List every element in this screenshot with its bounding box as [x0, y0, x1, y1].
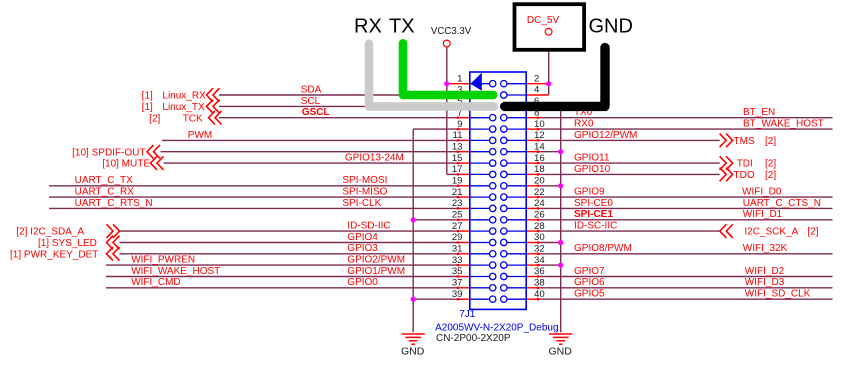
- svg-text:GND: GND: [401, 346, 425, 358]
- svg-text:Linux_TX: Linux_TX: [162, 102, 205, 113]
- svg-text:GPIO6: GPIO6: [574, 277, 605, 288]
- svg-text:WIFI_D2: WIFI_D2: [745, 266, 785, 277]
- svg-text:UART_C_CTS_N: UART_C_CTS_N: [743, 198, 821, 209]
- svg-text:SPI-MISO: SPI-MISO: [342, 187, 387, 198]
- svg-text:SPI-CE0: SPI-CE0: [574, 198, 613, 209]
- svg-text:27: 27: [452, 221, 463, 232]
- svg-text:26: 26: [534, 210, 545, 221]
- svg-text:GPIO11: GPIO11: [574, 153, 610, 164]
- svg-text:SCL: SCL: [301, 96, 321, 107]
- svg-text:GPIO13-24M: GPIO13-24M: [345, 153, 404, 164]
- svg-text:[2]: [2]: [765, 159, 776, 170]
- svg-text:GPIO7: GPIO7: [574, 266, 605, 277]
- svg-text:34: 34: [534, 255, 545, 266]
- svg-text:9: 9: [457, 119, 462, 130]
- svg-text:ID-SD-IIC: ID-SD-IIC: [347, 221, 390, 232]
- svg-text:GND: GND: [549, 346, 573, 358]
- svg-text:GPIO10: GPIO10: [574, 164, 611, 175]
- svg-text:[2]: [2]: [765, 170, 776, 181]
- svg-text:GSCL: GSCL: [302, 107, 330, 118]
- svg-text:BT_WAKE_HOST: BT_WAKE_HOST: [743, 119, 824, 130]
- svg-text:32: 32: [534, 244, 545, 255]
- svg-text:TMS: TMS: [734, 136, 755, 147]
- svg-text:39: 39: [452, 289, 463, 300]
- svg-text:19: 19: [452, 176, 463, 187]
- svg-text:12: 12: [534, 130, 545, 141]
- svg-text:30: 30: [534, 232, 545, 243]
- svg-text:7J1: 7J1: [459, 309, 476, 320]
- svg-text:WIFI_D1: WIFI_D1: [743, 209, 783, 220]
- svg-text:SDA: SDA: [301, 84, 322, 95]
- svg-text:28: 28: [534, 221, 545, 232]
- svg-text:RX: RX: [354, 16, 382, 38]
- svg-text:33: 33: [452, 255, 463, 266]
- svg-text:38: 38: [534, 278, 545, 289]
- svg-text:A2005WV-N-2X20P_Debug: A2005WV-N-2X20P_Debug: [435, 323, 558, 334]
- svg-text:I2C_SCK_A: I2C_SCK_A: [744, 227, 798, 238]
- svg-text:23: 23: [452, 198, 463, 209]
- svg-text:16: 16: [534, 153, 545, 164]
- svg-text:37: 37: [452, 278, 463, 289]
- svg-text:UART_C_TX: UART_C_TX: [75, 175, 133, 186]
- svg-text:BT_EN: BT_EN: [743, 107, 775, 118]
- svg-text:DC_5V: DC_5V: [527, 15, 560, 26]
- svg-text:2: 2: [534, 73, 539, 84]
- svg-text:20: 20: [534, 176, 545, 187]
- svg-text:1: 1: [457, 73, 462, 84]
- svg-text:GPIO0: GPIO0: [347, 277, 378, 288]
- svg-text:TX: TX: [389, 16, 415, 38]
- svg-text:[2]: [2]: [149, 113, 160, 124]
- svg-text:WIFI_D0: WIFI_D0: [742, 187, 782, 198]
- svg-text:WIFI_32K: WIFI_32K: [743, 243, 788, 254]
- svg-text:[2]: [2]: [807, 227, 818, 238]
- svg-text:GND: GND: [589, 16, 633, 38]
- svg-text:10: 10: [534, 119, 545, 130]
- svg-text:25: 25: [452, 210, 463, 221]
- svg-text:GPIO1/PWM: GPIO1/PWM: [347, 266, 405, 277]
- svg-text:21: 21: [452, 187, 463, 198]
- svg-text:CN-2P00-2X20P: CN-2P00-2X20P: [436, 333, 511, 344]
- svg-text:GPIO8/PWM: GPIO8/PWM: [574, 243, 632, 254]
- svg-text:[1] SYS_LED: [1] SYS_LED: [38, 238, 97, 249]
- svg-text:WIFI_WAKE_HOST: WIFI_WAKE_HOST: [131, 266, 220, 277]
- svg-text:18: 18: [534, 164, 545, 175]
- svg-text:GPIO9: GPIO9: [574, 187, 605, 198]
- svg-text:GPIO4: GPIO4: [347, 232, 378, 243]
- svg-text:GPIO12/PWM: GPIO12/PWM: [574, 130, 637, 141]
- svg-text:SPI-CE1: SPI-CE1: [574, 209, 613, 220]
- svg-text:[1] PWR_KEY_DET: [1] PWR_KEY_DET: [10, 249, 98, 260]
- svg-text:WIFI_SD_CLK: WIFI_SD_CLK: [745, 289, 811, 300]
- svg-text:24: 24: [534, 198, 545, 209]
- svg-text:15: 15: [452, 153, 463, 164]
- svg-text:TDO: TDO: [734, 170, 755, 181]
- svg-text:13: 13: [452, 141, 463, 152]
- svg-text:36: 36: [534, 266, 545, 277]
- svg-text:[1]: [1]: [142, 102, 153, 113]
- svg-text:[10] MUTE: [10] MUTE: [102, 159, 150, 170]
- svg-text:TDI: TDI: [737, 159, 753, 170]
- svg-text:WIFI_PWREN: WIFI_PWREN: [131, 255, 195, 266]
- svg-text:PWM: PWM: [188, 130, 212, 141]
- svg-text:GPIO5: GPIO5: [574, 289, 605, 300]
- svg-text:4: 4: [534, 85, 540, 96]
- svg-text:[2]: [2]: [765, 136, 776, 147]
- svg-text:UART_C_RTS_N: UART_C_RTS_N: [75, 198, 153, 209]
- svg-text:22: 22: [534, 187, 545, 198]
- svg-text:29: 29: [452, 232, 463, 243]
- svg-text:WIFI_CMD: WIFI_CMD: [131, 277, 180, 288]
- svg-text:31: 31: [452, 244, 463, 255]
- svg-text:TCK: TCK: [183, 113, 203, 124]
- svg-text:[2] I2C_SDA_A: [2] I2C_SDA_A: [16, 227, 84, 238]
- svg-text:SPI-CLK: SPI-CLK: [342, 198, 381, 209]
- svg-text:35: 35: [452, 266, 463, 277]
- svg-text:[10] SPDIF-OUT: [10] SPDIF-OUT: [72, 147, 145, 158]
- svg-text:RX0: RX0: [574, 119, 594, 130]
- svg-text:VCC3.3V: VCC3.3V: [431, 26, 472, 37]
- svg-text:WIFI_D3: WIFI_D3: [745, 277, 785, 288]
- svg-text:UART_C_RX: UART_C_RX: [75, 187, 135, 198]
- svg-text:40: 40: [534, 289, 545, 300]
- svg-text:[1]: [1]: [142, 91, 153, 102]
- svg-text:Linux_RX: Linux_RX: [162, 91, 206, 102]
- svg-text:SPI-MOSI: SPI-MOSI: [342, 175, 387, 186]
- svg-text:14: 14: [534, 141, 545, 152]
- svg-text:11: 11: [453, 130, 463, 141]
- svg-text:GPIO2/PWM: GPIO2/PWM: [347, 255, 405, 266]
- svg-text:ID-SC-IIC: ID-SC-IIC: [574, 221, 617, 232]
- svg-text:17: 17: [452, 164, 463, 175]
- svg-text:GPIO3: GPIO3: [347, 243, 378, 254]
